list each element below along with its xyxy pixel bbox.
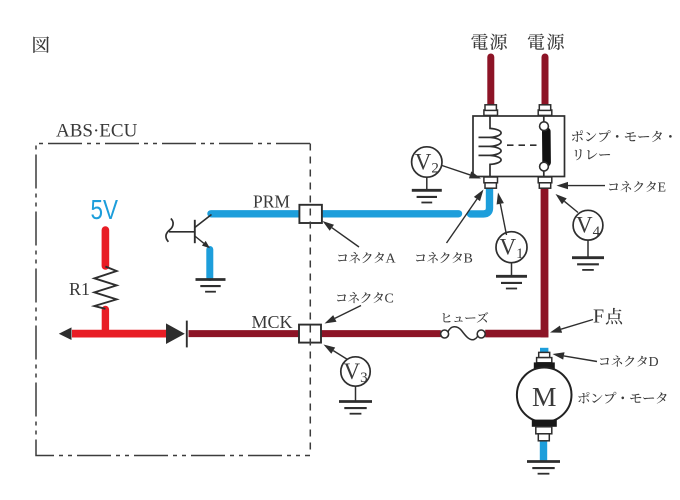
- svg-text:ABS·ECU: ABS·ECU: [56, 121, 138, 142]
- relay terminal bottom-left (connector B): [484, 177, 498, 183]
- label 電源 1: [471, 33, 488, 49]
- wire dark red from fuse to F point: [485, 330, 548, 338]
- relay coil: [490, 116, 501, 177]
- wire blue motor to ground: [540, 441, 547, 461]
- fuse terminal circle left: [441, 330, 449, 338]
- relay dashed link: [507, 144, 539, 146]
- label connector B: [416, 254, 425, 261]
- motor bottom connector: [536, 427, 552, 434]
- resistor R1: [94, 267, 116, 309]
- svg-text:5V: 5V: [91, 194, 119, 225]
- arrow connector E label: [568, 185, 605, 187]
- fuse terminal circle right: [477, 330, 485, 338]
- voltmeter V1: [496, 232, 527, 263]
- wire blue transistor emitter to ground: [206, 250, 213, 278]
- svg-text:MCK: MCK: [252, 312, 293, 332]
- arrow V1 to terminal: [500, 204, 506, 235]
- relay terminal top-right: [538, 110, 552, 115]
- svg-text:M: M: [532, 381, 556, 412]
- label connector E: [609, 183, 618, 190]
- svg-text:B: B: [464, 252, 473, 267]
- ground under V2: [426, 177, 428, 190]
- wire blue PRM horizontal: [211, 210, 459, 217]
- arrow connector C label: [335, 306, 361, 319]
- connector square (PRM row): [299, 205, 322, 223]
- svg-text:F: F: [593, 306, 604, 328]
- arrow V3 to connector C: [333, 351, 347, 360]
- transistor collector line: [195, 215, 212, 228]
- label fuse: [443, 313, 451, 322]
- fuse wavy link: [448, 327, 478, 340]
- label 図: [33, 36, 49, 53]
- motor body circle: [517, 368, 572, 423]
- connector D blue cap: [540, 348, 548, 355]
- arrow connector B label to terminal: [447, 199, 478, 243]
- transistor base line: [169, 231, 195, 233]
- label connector C: [337, 294, 346, 301]
- motor top cap (black): [534, 362, 555, 369]
- label connector D: [600, 358, 609, 365]
- wire 5V red vertical (top): [102, 230, 110, 266]
- svg-text:E: E: [658, 181, 667, 196]
- wire power feed 1: [487, 57, 494, 104]
- label pump motor: [578, 392, 589, 404]
- svg-text:C: C: [385, 292, 394, 307]
- wire red vertical below R1: [102, 310, 109, 334]
- ground under transistor: [196, 278, 226, 281]
- junction bar: [186, 321, 188, 348]
- ground under V3: [355, 386, 357, 401]
- label pump motor relay line1: [572, 130, 583, 142]
- connector D body: [539, 352, 550, 357]
- label pump motor relay line2: [575, 149, 582, 160]
- relay switch stub bottom: [543, 171, 545, 177]
- transistor emitter line with arrow: [195, 236, 204, 243]
- voltmeter V4: [573, 210, 603, 240]
- motor bottom cap (black): [532, 420, 557, 427]
- wire blue elbow to relay terminal: [471, 189, 490, 214]
- ground under V4: [587, 240, 589, 257]
- relay terminal bottom-right (connector E): [538, 177, 552, 183]
- relay contact bottom circle: [540, 162, 549, 171]
- ABS ECU box right edge (dashed, through connectors): [309, 144, 311, 456]
- voltmeter V2: [412, 147, 442, 177]
- arrow connector A label: [332, 228, 359, 247]
- transistor squiggle (from elsewhere): [166, 219, 173, 242]
- relay box: [473, 116, 565, 177]
- relay contact bar: [542, 132, 551, 163]
- ground under motor: [527, 460, 560, 463]
- connector square (MCK row): [299, 325, 321, 343]
- svg-text:A: A: [386, 252, 397, 267]
- relay terminal top-left: [484, 110, 498, 115]
- wire dark red vertical (relay to F point): [541, 186, 549, 337]
- label connector A: [338, 254, 347, 261]
- transistor bar: [194, 220, 196, 243]
- arrowhead left (current direction): [59, 327, 72, 340]
- arrow V4 to terminal: [564, 201, 578, 212]
- wire dark red MCK horizontal: [189, 330, 441, 337]
- ground under V1: [511, 263, 513, 276]
- arrow F point label: [561, 320, 593, 330]
- svg-text:PRM: PRM: [253, 192, 290, 212]
- svg-text:R1: R1: [69, 279, 90, 299]
- arrowhead right into junction: [166, 323, 185, 344]
- relay contact top circle: [540, 122, 549, 131]
- voltmeter V3: [341, 357, 370, 386]
- ABS ECU dashed box: [36, 144, 310, 456]
- wire red horizontal: [72, 330, 168, 338]
- label 電源 2: [528, 33, 545, 49]
- wire power feed 2: [542, 57, 549, 104]
- arrow connector D label: [564, 356, 597, 362]
- svg-text:D: D: [649, 355, 659, 370]
- relay switch stub top: [543, 116, 545, 122]
- arrow V2 to relay terminal: [442, 166, 470, 175]
